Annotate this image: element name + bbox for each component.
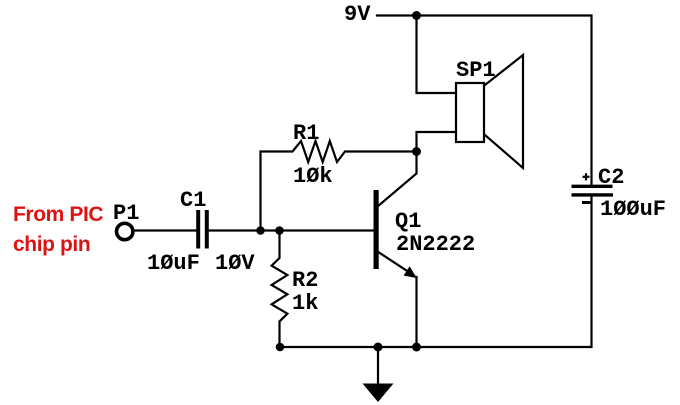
svg-text:1ØuF: 1ØuF bbox=[147, 251, 200, 276]
svg-text:2N2222: 2N2222 bbox=[396, 232, 475, 257]
svg-text:R2: R2 bbox=[292, 268, 318, 293]
svg-text:1Øk: 1Øk bbox=[293, 164, 333, 189]
svg-text:R1: R1 bbox=[293, 121, 319, 146]
svg-text:C2: C2 bbox=[598, 165, 624, 190]
svg-text:1ØØuF: 1ØØuF bbox=[600, 197, 666, 222]
svg-text:SP1: SP1 bbox=[456, 58, 496, 83]
svg-text:1k: 1k bbox=[292, 291, 318, 316]
svg-text:1ØV: 1ØV bbox=[215, 251, 255, 276]
svg-text:9V: 9V bbox=[344, 2, 371, 27]
svg-text:P1: P1 bbox=[113, 201, 139, 226]
svg-text:Q1: Q1 bbox=[395, 209, 421, 234]
svg-text:C1: C1 bbox=[180, 188, 206, 213]
